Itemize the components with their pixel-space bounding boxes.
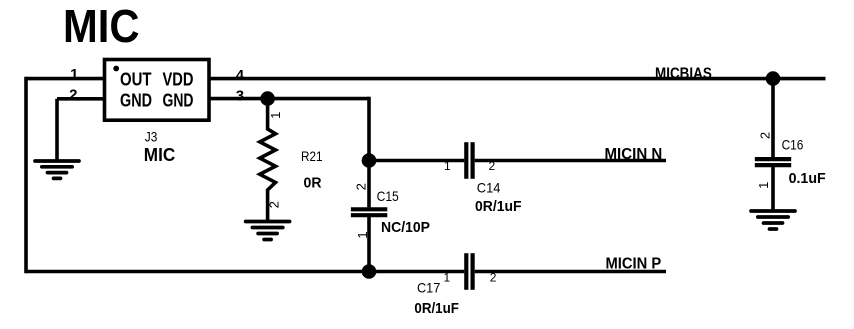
svg-text:C17: C17 [417, 280, 440, 296]
svg-text:1: 1 [355, 231, 370, 238]
capacitor C17 plates [466, 253, 472, 290]
ground below pin2 [35, 161, 79, 178]
wire MICIN N left segment [369, 159, 464, 163]
junction node MICBIAS / C16 [766, 71, 781, 86]
svg-text:1: 1 [268, 112, 283, 119]
svg-text:1: 1 [70, 66, 78, 83]
svg-text:1: 1 [756, 182, 771, 189]
svg-text:NC/10P: NC/10P [381, 219, 430, 236]
wire left vertical rail [24, 77, 28, 273]
resistor R21 body [260, 99, 276, 222]
svg-text:2: 2 [490, 271, 497, 285]
svg-text:MIC: MIC [144, 145, 175, 165]
wire pin3 horizontal [207, 97, 369, 101]
svg-text:GND: GND [120, 91, 152, 111]
svg-text:2: 2 [69, 87, 77, 104]
svg-text:MICBIAS: MICBIAS [655, 65, 712, 82]
svg-text:0R/1uF: 0R/1uF [414, 300, 459, 317]
svg-text:2: 2 [266, 201, 281, 208]
ground below R21 [246, 222, 290, 240]
junction node at pin3 / R21 [260, 91, 275, 106]
svg-text:GND: GND [163, 91, 194, 111]
svg-text:2: 2 [353, 183, 368, 190]
wire MICIN P right segment [475, 270, 666, 274]
capacitor C16 plates [755, 159, 791, 165]
svg-text:0.1uF: 0.1uF [789, 170, 826, 187]
capacitor C14 plates [466, 142, 472, 179]
svg-text:1: 1 [444, 159, 451, 173]
svg-text:0R/1uF: 0R/1uF [475, 198, 522, 215]
wire pin2 horizontal [57, 97, 106, 101]
svg-text:J3: J3 [145, 128, 158, 144]
pin 1 marker dot [113, 66, 119, 72]
svg-text:C15: C15 [377, 188, 399, 204]
junction node MICIN N / C15 [362, 153, 377, 168]
wire C15 bottom to MICIN P [367, 217, 371, 272]
svg-text:MICIN P: MICIN P [606, 256, 662, 273]
wire pin2 ground stem [55, 99, 59, 161]
connector J3 box [105, 60, 210, 121]
svg-text:2: 2 [488, 159, 495, 173]
svg-text:MIC: MIC [63, 0, 140, 52]
wire MICBIAS top horizontal [26, 77, 826, 81]
svg-text:VDD: VDD [163, 70, 194, 90]
capacitor C15 plates [351, 209, 387, 215]
svg-text:4: 4 [236, 67, 245, 84]
ground below C16 [751, 211, 795, 229]
svg-text:C16: C16 [782, 136, 804, 152]
svg-text:3: 3 [236, 88, 244, 105]
svg-text:1: 1 [444, 271, 451, 285]
svg-text:2: 2 [757, 132, 772, 139]
svg-text:OUT: OUT [120, 70, 152, 90]
svg-text:0R: 0R [304, 175, 322, 192]
wire C16 bottom stem [771, 167, 775, 211]
junction node MICIN P / C15 [362, 264, 377, 279]
wire C16 top stem [771, 79, 775, 158]
wire vertical to C15 top [367, 97, 371, 208]
wire MICIN N right segment [475, 159, 666, 163]
svg-text:MICIN N: MICIN N [605, 146, 663, 163]
svg-text:R21: R21 [301, 148, 323, 164]
svg-text:C14: C14 [477, 179, 501, 195]
wire MICIN P left segment [26, 270, 464, 274]
